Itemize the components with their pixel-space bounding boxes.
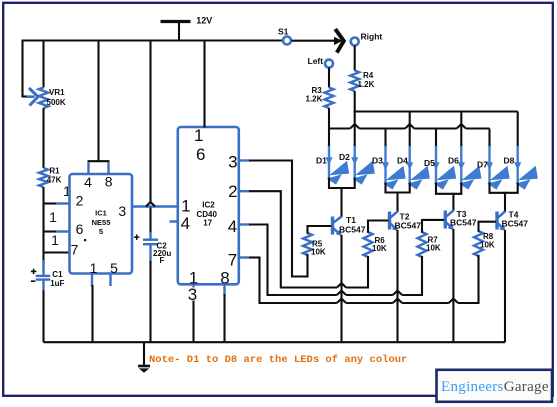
svg-text:10K: 10K bbox=[426, 244, 441, 253]
svg-text:4: 4 bbox=[84, 174, 92, 190]
svg-text:R8: R8 bbox=[483, 232, 494, 241]
wire IC1 pin1 stub bbox=[91, 274, 93, 287]
wire pin4 to R7 bbox=[421, 256, 423, 296]
svg-text:D5: D5 bbox=[424, 158, 435, 168]
transistor T3 bbox=[444, 211, 447, 229]
EngineersGarage logo bbox=[437, 370, 553, 402]
svg-text:6: 6 bbox=[196, 145, 205, 164]
wire pin4 bus segment bbox=[346, 294, 393, 296]
svg-text:6: 6 bbox=[76, 221, 84, 237]
wire pin7 bus segment bbox=[402, 302, 449, 304]
wire IC2 supply drop bbox=[203, 40, 205, 128]
wire D7 anode drop bbox=[488, 129, 490, 148]
LED D1 bbox=[328, 146, 330, 178]
svg-text:D8: D8 bbox=[504, 156, 515, 166]
hop lower bus over D4 drop bbox=[405, 124, 414, 128]
wire collector drop T2 bbox=[396, 192, 398, 213]
svg-text:10K: 10K bbox=[372, 244, 387, 253]
wire pin7 bus segment bbox=[458, 302, 479, 304]
transistor T2 bbox=[388, 212, 391, 230]
svg-text:S1: S1 bbox=[278, 27, 289, 37]
svg-text:BC547: BC547 bbox=[395, 221, 422, 231]
svg-text:D3: D3 bbox=[372, 156, 383, 166]
wire C2 upper bbox=[149, 208, 151, 235]
wire pin4 route bbox=[249, 223, 269, 225]
wire Right to R4 bbox=[354, 46, 356, 71]
wire cathode U pair T4 bbox=[490, 183, 518, 193]
LED D8 bbox=[517, 146, 519, 183]
hop pin7 bus over T1 emitter bbox=[337, 299, 346, 303]
wire pin7 route bbox=[249, 256, 261, 258]
svg-text:NE55: NE55 bbox=[92, 218, 111, 227]
svg-text:2: 2 bbox=[76, 192, 84, 208]
hop pin7 bus over T2 emitter bbox=[393, 299, 402, 303]
capacitor C1 bbox=[42, 260, 44, 276]
resistor R8 bbox=[474, 231, 483, 256]
wire Left to R3 bbox=[328, 68, 330, 88]
svg-text:Left: Left bbox=[308, 56, 324, 66]
wire IC1 pin8 stub bbox=[107, 162, 109, 174]
svg-text:C1: C1 bbox=[52, 270, 63, 279]
hop pin3 line over C2 wire bbox=[146, 202, 155, 206]
resistor R5 bbox=[303, 233, 312, 255]
svg-text:EngineersGarage: EngineersGarage bbox=[441, 379, 549, 395]
wire base T2 bbox=[368, 219, 388, 221]
svg-text:1: 1 bbox=[90, 260, 98, 276]
resistor R3 bbox=[325, 88, 334, 109]
hop lower bus over D2 drop bbox=[350, 124, 359, 128]
counter IC2 CD4017 box bbox=[178, 127, 239, 284]
LED D3 bbox=[384, 146, 386, 183]
hop pin4 bus over T2 emitter bbox=[393, 291, 402, 295]
svg-text:3: 3 bbox=[118, 203, 126, 219]
svg-text:D2: D2 bbox=[339, 152, 350, 162]
svg-text:D4: D4 bbox=[397, 156, 408, 166]
svg-text:BC547: BC547 bbox=[339, 225, 366, 235]
wire collector drop T3 bbox=[452, 193, 454, 211]
wire base T1 bbox=[308, 225, 332, 227]
wire IC1 supply drop bbox=[97, 40, 99, 162]
hop pin7 bus over T3 emitter bbox=[449, 299, 458, 303]
transistor T4 bbox=[495, 212, 498, 230]
hop pin2 bus over T1 emitter bbox=[337, 283, 346, 287]
wire R5 top bbox=[306, 225, 308, 234]
svg-text:Right: Right bbox=[361, 32, 383, 42]
switch S1 pole circle bbox=[283, 37, 291, 45]
wire C2 from bus bbox=[149, 40, 151, 204]
S1 blade bbox=[335, 29, 344, 53]
wire IC2 pin2 stub bbox=[239, 190, 250, 192]
wire lower anode bus segment bbox=[414, 127, 456, 129]
svg-text:R1: R1 bbox=[49, 167, 60, 176]
S1 arrowhead bbox=[334, 37, 343, 45]
S1 arrow wire bbox=[292, 40, 336, 42]
resistor R1 bbox=[39, 168, 48, 187]
wire pin2 bus segment bbox=[346, 286, 368, 288]
terminal Right circle bbox=[351, 38, 359, 46]
wire upper anode bus bbox=[354, 110, 518, 112]
wire collector drop T4 bbox=[504, 192, 506, 212]
wire pin7 bus segment bbox=[346, 302, 393, 304]
svg-text:1uF: 1uF bbox=[50, 279, 64, 288]
wire cathode U pair T3 bbox=[436, 183, 461, 194]
wire emitter T4 bbox=[504, 230, 506, 342]
wire emitter T3 bbox=[452, 229, 454, 342]
svg-text:BC547: BC547 bbox=[502, 219, 529, 229]
wire top +12V bus bbox=[23, 39, 284, 41]
wire IC1 pin5 stub bbox=[109, 274, 111, 287]
wire R1 to C1 bbox=[42, 187, 44, 271]
svg-text:IC2: IC2 bbox=[202, 200, 215, 209]
wire D6 anode drop bbox=[460, 112, 462, 148]
svg-text:4: 4 bbox=[228, 217, 237, 236]
svg-text:1.2K: 1.2K bbox=[358, 80, 375, 89]
svg-text:4: 4 bbox=[181, 214, 190, 233]
wire pin3 route bbox=[249, 159, 293, 161]
resistor R6 bbox=[364, 232, 373, 257]
svg-text:1: 1 bbox=[181, 197, 190, 216]
svg-text:2: 2 bbox=[228, 182, 237, 201]
svg-text:1: 1 bbox=[194, 126, 203, 145]
wire stub IC1 pin6 bbox=[44, 230, 58, 232]
svg-text:12V: 12V bbox=[196, 16, 212, 26]
wire pin2 to R6 bbox=[367, 256, 369, 289]
wire R4 to upper bus bbox=[354, 91, 356, 112]
svg-text:1: 1 bbox=[49, 209, 57, 225]
wire R3 to lower bus bbox=[328, 108, 330, 129]
wire VR1 to R1 bbox=[42, 108, 44, 168]
wire C2 to ground rail bbox=[149, 261, 151, 342]
wire stub IC1 pin2 bbox=[44, 202, 58, 204]
svg-text:10K: 10K bbox=[311, 247, 326, 256]
LED D7 bbox=[488, 146, 490, 183]
wire R7 top bbox=[421, 219, 423, 233]
12V supply symbol bbox=[161, 20, 191, 23]
wire lower anode bus segment bbox=[359, 127, 405, 129]
wire IC2 pin3 stub bbox=[239, 159, 250, 161]
wire left loop to VR1 wiper bbox=[21, 40, 23, 97]
hop pin4 bus over T1 emitter bbox=[337, 291, 346, 295]
svg-text:5: 5 bbox=[110, 260, 118, 276]
svg-text:500K: 500K bbox=[47, 98, 66, 107]
svg-text:D6: D6 bbox=[448, 156, 459, 166]
resistor R4 bbox=[350, 71, 359, 92]
svg-text:5: 5 bbox=[99, 227, 103, 236]
wire D2 anode drop bbox=[354, 112, 356, 148]
wire base T3 bbox=[422, 219, 444, 221]
wire C1 to ground rail bbox=[42, 291, 44, 343]
wire cathode U pair T2 bbox=[386, 183, 410, 193]
svg-text:D7: D7 bbox=[477, 160, 488, 170]
wire collector drop T1 bbox=[340, 187, 342, 217]
wire R8 top bbox=[477, 221, 479, 232]
wire IC2 bottom pin1 stub bbox=[192, 284, 194, 291]
svg-text:10K: 10K bbox=[480, 241, 495, 250]
wire D3 anode drop bbox=[384, 129, 386, 148]
potentiometer VR1 bbox=[39, 88, 49, 109]
wire pin7 bus segment bbox=[260, 302, 337, 304]
svg-text:8: 8 bbox=[105, 173, 113, 189]
wire cathode U pair T1 bbox=[329, 178, 355, 189]
wire lower anode bus segment bbox=[329, 127, 350, 129]
wire emitter T1 bbox=[340, 235, 342, 342]
terminal Left circle bbox=[325, 60, 333, 68]
svg-text:IC1: IC1 bbox=[95, 209, 107, 218]
svg-text:T1: T1 bbox=[346, 215, 356, 225]
LED D4 bbox=[409, 146, 411, 183]
svg-text:1.2K: 1.2K bbox=[306, 94, 323, 103]
wire pin2 route bbox=[249, 190, 282, 192]
wire pin7 to R8 bbox=[477, 255, 479, 304]
transistor T1 bbox=[331, 217, 334, 235]
wire pin4 bus segment bbox=[402, 294, 422, 296]
hop lower bus over D6 drop bbox=[457, 124, 466, 128]
wire base T4 bbox=[479, 221, 496, 223]
wire D1 anode drop bbox=[328, 129, 330, 148]
C2 plus sign bbox=[134, 236, 139, 238]
wire IC2 pin4 stub bbox=[239, 223, 250, 225]
wire pin4 bus segment bbox=[268, 294, 337, 296]
svg-text:F: F bbox=[160, 256, 165, 265]
wire stub IC1 pin7 bbox=[44, 251, 70, 253]
C1 minus sign bbox=[31, 280, 35, 282]
wire IC1 pin1 to ground rail bbox=[91, 285, 93, 342]
IC1 stray dot bbox=[84, 239, 86, 241]
wire IC1 pin3 output bbox=[132, 205, 179, 207]
svg-text:D1: D1 bbox=[316, 156, 327, 166]
wire R6 top bbox=[367, 220, 369, 233]
svg-text:47K: 47K bbox=[47, 176, 62, 185]
wire left rail (bus to VR1) bbox=[42, 40, 44, 88]
svg-text:7: 7 bbox=[71, 241, 79, 257]
C1 plus sign bbox=[31, 270, 36, 272]
capacitor C2 bbox=[149, 232, 151, 240]
wire D8 anode drop bbox=[517, 112, 519, 148]
svg-text:17: 17 bbox=[203, 218, 212, 227]
wire IC2 pin1 bottom to rail bbox=[192, 301, 194, 343]
white pad under 3 bbox=[188, 288, 200, 301]
svg-text:R4: R4 bbox=[363, 71, 374, 80]
svg-text:3: 3 bbox=[228, 152, 237, 171]
wire IC2 pin8 bottom to rail bbox=[223, 294, 225, 342]
wire IC1 pin4 stub bbox=[87, 162, 89, 174]
svg-text:7: 7 bbox=[228, 250, 237, 269]
LED D5 bbox=[435, 146, 437, 183]
wire IC2 bottom pin8 stub bbox=[223, 284, 225, 295]
wire emitter T2 bbox=[396, 230, 398, 342]
wire IC2 left stub pin4 bbox=[170, 220, 179, 222]
svg-text:Note- D1 to D8 are the LEDs of: Note- D1 to D8 are the LEDs of any colou… bbox=[149, 354, 407, 366]
resistor R7 bbox=[418, 232, 427, 257]
svg-text:VR1: VR1 bbox=[49, 88, 65, 97]
ground symbol bbox=[143, 342, 145, 366]
wire lower anode bus segment bbox=[466, 127, 490, 129]
LED D2 bbox=[354, 146, 356, 178]
wire ground rail bbox=[44, 341, 506, 343]
wire D4 anode drop bbox=[409, 112, 411, 148]
wire IC2 pin7 stub bbox=[239, 256, 250, 258]
LED D6 bbox=[460, 146, 462, 183]
wire D5 anode drop bbox=[435, 129, 437, 148]
wire pin2 bus segment bbox=[281, 286, 337, 288]
svg-text:1: 1 bbox=[51, 232, 59, 248]
svg-text:BC547: BC547 bbox=[450, 217, 477, 227]
op-amp timer IC1 NE555 box bbox=[70, 174, 133, 274]
